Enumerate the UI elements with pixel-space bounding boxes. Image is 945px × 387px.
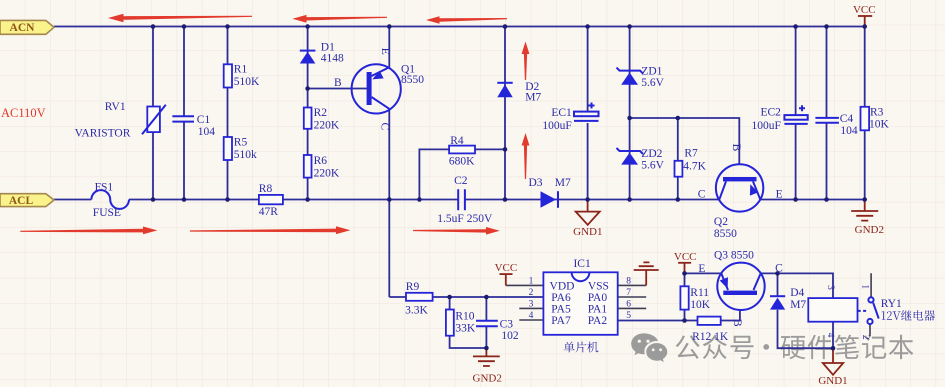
svg-text:B: B — [731, 319, 743, 327]
svg-text:R12 1K: R12 1K — [692, 331, 729, 343]
svg-text:C: C — [698, 188, 706, 200]
svg-text:PA0: PA0 — [588, 292, 608, 304]
svg-text:2: 2 — [529, 288, 534, 298]
svg-text:C: C — [775, 262, 783, 274]
svg-text:R3: R3 — [870, 106, 884, 118]
svg-text:M7: M7 — [790, 299, 806, 311]
svg-text:Q3 8550: Q3 8550 — [714, 249, 754, 261]
svg-text:C3: C3 — [500, 318, 514, 330]
svg-text:AC110V: AC110V — [1, 106, 46, 120]
svg-text:102: 102 — [501, 330, 519, 342]
svg-text:ACN: ACN — [10, 22, 36, 34]
svg-text:GND1: GND1 — [818, 375, 847, 387]
svg-text:D3: D3 — [529, 177, 543, 189]
svg-text:4: 4 — [825, 333, 835, 338]
svg-text:VDD: VDD — [550, 281, 575, 293]
svg-text:100uF: 100uF — [542, 120, 571, 132]
svg-text:RY1: RY1 — [881, 298, 902, 310]
svg-text:100uF: 100uF — [751, 120, 780, 132]
svg-text:1: 1 — [529, 276, 534, 286]
svg-text:33K: 33K — [455, 323, 476, 335]
svg-text:PA7: PA7 — [551, 315, 571, 327]
svg-text:220K: 220K — [314, 167, 340, 179]
svg-text:VSS: VSS — [588, 281, 609, 293]
svg-text:3.3K: 3.3K — [405, 304, 428, 316]
svg-text:8550: 8550 — [401, 74, 424, 86]
svg-text:680K: 680K — [449, 156, 475, 168]
svg-text:RV1: RV1 — [105, 101, 126, 113]
svg-text:7: 7 — [626, 288, 631, 298]
svg-text:R8: R8 — [259, 183, 273, 195]
svg-text:1: 1 — [859, 284, 869, 289]
svg-text:5.6V: 5.6V — [641, 160, 664, 172]
svg-text:IC1: IC1 — [573, 258, 591, 270]
svg-text:E: E — [379, 48, 391, 55]
svg-text:10K: 10K — [869, 119, 890, 131]
svg-text:VCC: VCC — [674, 251, 697, 263]
svg-text:PA2: PA2 — [588, 315, 608, 327]
svg-text:6: 6 — [626, 299, 631, 309]
svg-text:VCC: VCC — [495, 262, 518, 274]
svg-text:4.7K: 4.7K — [683, 161, 706, 173]
svg-text:PA6: PA6 — [551, 292, 571, 304]
svg-text:C: C — [379, 123, 391, 131]
svg-text:M7: M7 — [555, 177, 571, 189]
svg-text:1.5uF 250V: 1.5uF 250V — [437, 213, 493, 225]
svg-text:VARISTOR: VARISTOR — [75, 128, 131, 140]
svg-text:PA1: PA1 — [588, 303, 608, 315]
svg-text:GND2: GND2 — [473, 372, 502, 384]
svg-text:VCC: VCC — [853, 4, 876, 16]
svg-text:FUSE: FUSE — [93, 207, 121, 219]
svg-text:104: 104 — [198, 126, 216, 138]
svg-text:3: 3 — [825, 285, 835, 290]
svg-text:4: 4 — [529, 311, 534, 321]
svg-text:47R: 47R — [259, 206, 279, 218]
svg-text:C4: C4 — [840, 113, 854, 125]
svg-text:Q2: Q2 — [714, 216, 728, 228]
svg-text:D4: D4 — [790, 287, 804, 299]
svg-text:R5: R5 — [234, 137, 248, 149]
svg-text:R6: R6 — [314, 155, 328, 167]
svg-text:E: E — [698, 263, 705, 275]
svg-text:510K: 510K — [234, 76, 260, 88]
svg-text:GND1: GND1 — [573, 226, 602, 238]
svg-text:B: B — [334, 77, 342, 89]
svg-text:5: 5 — [626, 311, 631, 321]
svg-text:C1: C1 — [197, 114, 211, 126]
svg-text:R2: R2 — [314, 107, 328, 119]
svg-text:R4: R4 — [450, 135, 464, 147]
svg-text:EC1: EC1 — [551, 107, 572, 119]
svg-text:R7: R7 — [684, 148, 698, 160]
svg-text:M7: M7 — [525, 92, 541, 104]
svg-text:8: 8 — [626, 276, 631, 286]
svg-text:4148: 4148 — [321, 53, 344, 65]
svg-text:R9: R9 — [406, 281, 420, 293]
svg-text:GND2: GND2 — [855, 224, 884, 236]
svg-text:ACL: ACL — [9, 195, 34, 207]
svg-text:5.6V: 5.6V — [641, 77, 664, 89]
svg-text:R1: R1 — [234, 64, 248, 76]
svg-text:8550: 8550 — [714, 228, 737, 240]
svg-text:FS1: FS1 — [95, 182, 114, 194]
svg-text:ZD1: ZD1 — [641, 66, 662, 78]
svg-text:104: 104 — [840, 125, 858, 137]
svg-text:ZD2: ZD2 — [641, 148, 662, 160]
svg-text:10K: 10K — [690, 299, 711, 311]
svg-text:B: B — [730, 144, 742, 152]
svg-text:220K: 220K — [314, 119, 340, 131]
svg-text:E: E — [776, 188, 783, 200]
svg-text:2: 2 — [860, 335, 870, 340]
svg-text:C2: C2 — [454, 175, 468, 187]
svg-text:PA5: PA5 — [551, 303, 571, 315]
svg-text:3: 3 — [529, 299, 534, 309]
svg-text:510k: 510k — [234, 149, 257, 161]
svg-text:R11: R11 — [690, 287, 709, 299]
svg-text:R10: R10 — [455, 310, 474, 322]
svg-text:EC2: EC2 — [760, 107, 781, 119]
